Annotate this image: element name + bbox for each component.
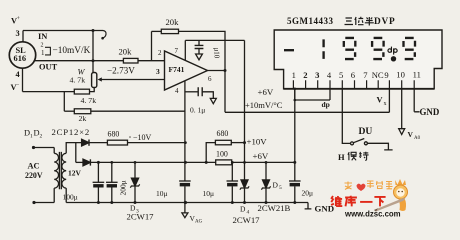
svg-text:H: H <box>338 152 345 162</box>
svg-text:μ10: μ10 <box>213 48 221 59</box>
svg-text:F741: F741 <box>169 65 185 74</box>
svg-text:V: V <box>408 130 414 139</box>
svg-text:220V: 220V <box>25 171 43 180</box>
svg-text:20μ: 20μ <box>302 188 314 197</box>
svg-text:2: 2 <box>40 134 43 140</box>
svg-text:680: 680 <box>108 129 120 138</box>
svg-text:3: 3 <box>315 70 319 80</box>
svg-text:2CW21B: 2CW21B <box>258 203 291 213</box>
svg-text:2: 2 <box>303 70 307 80</box>
svg-text:NC: NC <box>372 70 384 80</box>
svg-text:GND: GND <box>420 107 440 117</box>
svg-text:1: 1 <box>41 49 45 57</box>
svg-text:10μ: 10μ <box>156 189 168 198</box>
svg-text:2: 2 <box>41 43 44 49</box>
svg-text:3: 3 <box>16 29 20 38</box>
svg-text:V: V <box>377 95 383 104</box>
svg-text:10μ: 10μ <box>203 189 215 198</box>
svg-text:200μ: 200μ <box>119 180 128 195</box>
svg-text:7: 7 <box>175 47 179 55</box>
svg-text:x: x <box>384 101 387 107</box>
svg-text:4: 4 <box>175 87 179 95</box>
svg-text:5: 5 <box>339 70 343 80</box>
svg-text:680: 680 <box>217 129 229 138</box>
svg-text:+10V: +10V <box>247 137 268 147</box>
svg-text:4: 4 <box>327 70 332 80</box>
svg-text:20k: 20k <box>166 17 180 27</box>
svg-text:DU: DU <box>359 126 373 137</box>
svg-text:OUT: OUT <box>39 63 58 72</box>
svg-text:20k: 20k <box>119 47 133 57</box>
svg-text:5: 5 <box>279 185 282 191</box>
svg-text:+10mV/°C: +10mV/°C <box>245 100 283 110</box>
svg-text:2CP12×2: 2CP12×2 <box>52 127 91 137</box>
svg-text:4. 7k: 4. 7k <box>81 96 97 105</box>
svg-text:100: 100 <box>216 149 228 158</box>
svg-text:−10mV/K: −10mV/K <box>53 46 91 56</box>
svg-text:AG: AG <box>195 220 203 225</box>
svg-text:2CW17: 2CW17 <box>127 212 155 222</box>
svg-text:2: 2 <box>158 49 162 57</box>
svg-text:+6V: +6V <box>253 151 269 161</box>
svg-text:D: D <box>273 180 279 189</box>
svg-text:10: 10 <box>396 70 405 80</box>
svg-text:+6V: +6V <box>258 87 274 97</box>
svg-text:0. 1μ: 0. 1μ <box>190 106 205 115</box>
svg-text:4. 7k: 4. 7k <box>70 76 86 85</box>
svg-text:​1: ​1 <box>292 70 296 80</box>
svg-text:5GM14433: 5GM14433 <box>287 16 334 26</box>
svg-text:DVP: DVP <box>374 17 396 27</box>
svg-text:3: 3 <box>156 67 160 76</box>
svg-text:11: 11 <box>413 70 421 80</box>
svg-text:www.dzsc.com: www.dzsc.com <box>344 210 401 219</box>
svg-text:616: 616 <box>14 54 27 63</box>
svg-text:AC: AC <box>28 162 40 171</box>
svg-text:dp: dp <box>322 100 330 109</box>
svg-text:−2.73V: −2.73V <box>107 66 135 76</box>
svg-text:D: D <box>240 205 246 214</box>
svg-text:6: 6 <box>351 70 356 80</box>
svg-text:100μ: 100μ <box>63 192 78 201</box>
svg-text:2CW17: 2CW17 <box>233 215 261 225</box>
svg-text:A0: A0 <box>414 136 421 141</box>
svg-text:−10V: −10V <box>133 133 152 142</box>
svg-text:6: 6 <box>208 75 212 83</box>
svg-text:IN: IN <box>38 32 47 41</box>
svg-text:12V: 12V <box>68 169 82 178</box>
svg-text:9: 9 <box>384 70 388 80</box>
svg-text:7: 7 <box>363 70 368 80</box>
svg-text:2k: 2k <box>79 114 87 123</box>
